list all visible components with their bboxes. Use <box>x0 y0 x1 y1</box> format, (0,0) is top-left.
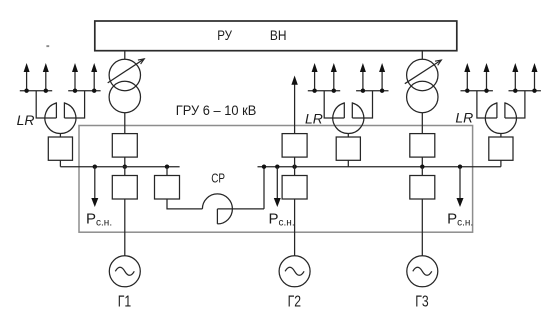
feeder arrow at x=362.9 <box>360 63 366 93</box>
GRU switchgear outline box <box>79 126 473 233</box>
wire: G1 breaker to generator G1 <box>124 199 126 256</box>
feeder arrow at x=534.5 <box>532 63 538 93</box>
svg-text:Г2: Г2 <box>288 293 301 310</box>
feeder arrow at x=486.5 <box>484 63 490 93</box>
svg-text:Рс.н.: Рс.н. <box>269 211 295 229</box>
svg-text:LR: LR <box>305 111 323 127</box>
wire: LR3 centre tap to breaker <box>500 134 502 138</box>
split reactor LR3 feeder group A bus <box>461 90 493 92</box>
feeder arrow at x=45.8 <box>43 63 49 93</box>
svg-text:Г1: Г1 <box>118 293 131 310</box>
right section bus 6-10 kV <box>258 166 501 168</box>
svg-text:ГРУ 6 – 10 кВ: ГРУ 6 – 10 кВ <box>176 102 256 118</box>
split reactor LR3 body <box>485 102 516 133</box>
svg-text:Рс.н.: Рс.н. <box>447 211 473 229</box>
breaker box LR1 <box>48 137 72 160</box>
junction dot: right bus / Psn right <box>458 165 462 169</box>
stray mark (artifact in source drawing) <box>46 45 49 47</box>
auxiliary load arrow Рс.н. middle <box>274 167 281 207</box>
svg-text:Рс.н.: Рс.н. <box>86 211 112 229</box>
wire: G3 breaker to generator G3 <box>421 199 423 256</box>
split reactor LR1 body <box>45 102 76 133</box>
transformer T2 (two-winding, on-load tap changer) <box>405 59 442 112</box>
split reactor LR1 feeder group A bus <box>20 90 52 92</box>
wire: T2 breaker to bus <box>421 157 423 167</box>
feeder arrow at x=314.6 <box>312 63 318 93</box>
svg-text:ВН: ВН <box>270 27 287 43</box>
auxiliary load arrow Рс.н. right <box>457 167 464 207</box>
breaker box T2-bus <box>410 134 435 158</box>
split reactor LR3 feeder group B bus <box>509 90 541 92</box>
wire: T2 HV lead <box>421 51 423 60</box>
generator G2 <box>279 256 310 287</box>
svg-text:СР: СР <box>211 171 225 186</box>
wire: feeder breaker to bus <box>294 157 296 167</box>
breaker box T1-bus <box>112 134 137 158</box>
wire: T1 HV lead <box>124 51 126 60</box>
auxiliary load arrow Рс.н. left <box>91 167 98 207</box>
wire: bus to G1 breaker <box>124 167 126 176</box>
split reactor LR2 feeder group A bus <box>308 90 340 92</box>
wire: group B drop to LR1 right terminal <box>64 91 84 118</box>
wire: CP breaker down and right to reactor <box>167 199 202 209</box>
junction dot: right bus / T2 / G3 <box>420 165 424 169</box>
wire: group A drop to LR3 left terminal <box>477 91 497 118</box>
split reactor LR2 feeder group B bus <box>356 90 388 92</box>
wire: T1 breaker to left bus <box>124 157 126 167</box>
wire: LR1 breaker to section bus <box>59 160 61 166</box>
svg-text:LR: LR <box>17 112 35 128</box>
wire: bus to G2 breaker <box>294 167 296 176</box>
feeder arrow at x=515.3 <box>512 63 518 93</box>
outgoing line arrow (G2 feeder up) <box>291 76 297 134</box>
wire: LR2 centre tap to breaker <box>347 134 349 138</box>
generator G3 <box>407 256 438 287</box>
junction dot: right bus / Psn middle <box>275 165 279 169</box>
breaker box LR2 <box>336 137 360 160</box>
left section bus 6-10 kV <box>60 166 179 168</box>
feeder arrow at x=333.8 <box>331 63 337 93</box>
wire: G2 breaker to generator G2 <box>294 199 296 256</box>
breaker box CP (section) <box>155 176 180 200</box>
breaker box G1 <box>112 176 137 200</box>
feeder arrow at x=26.6 <box>24 63 30 93</box>
breaker box G3 <box>410 176 435 200</box>
transformer T1 (two-winding, on-load tap changer) <box>108 59 145 113</box>
breaker box G2 <box>282 176 307 200</box>
junction dot: right bus / CP <box>262 165 266 169</box>
junction dot: left bus / section reactor branch <box>165 165 169 169</box>
wire: T2 LV lead <box>421 113 423 134</box>
wire: LR3 breaker to section bus <box>500 160 502 166</box>
junction dot: left bus / T1 / G1 <box>123 165 127 169</box>
svg-text:Г3: Г3 <box>415 293 428 310</box>
feeder arrow at x=94.2 <box>91 63 97 93</box>
feeder arrow at x=467.3 <box>464 63 470 93</box>
wire: reactor up to right bus <box>263 167 265 209</box>
wire: LR2 breaker to section bus <box>347 160 349 166</box>
wire: LR1 centre tap to breaker <box>59 134 61 138</box>
wire: group A drop to LR1 left terminal <box>36 91 56 118</box>
breaker box LR3 <box>489 137 513 160</box>
HV switchgear busbar box РУ ВН <box>95 21 457 51</box>
junction dot: right bus / G2 <box>292 165 296 169</box>
breaker box G2 feeder <box>282 134 307 158</box>
wire: T1 LV lead <box>124 113 126 134</box>
split reactor LR1 feeder group B bus <box>68 90 100 92</box>
wire: bus to G3 breaker <box>421 167 423 176</box>
junction dot: left bus / Psn tap <box>93 165 97 169</box>
split reactor LR2 body <box>333 102 364 133</box>
svg-text:LR: LR <box>455 110 473 126</box>
svg-text:РУ: РУ <box>217 27 232 43</box>
wire: group A drop to LR2 left terminal <box>324 91 344 118</box>
feeder arrow at x=75.0 <box>72 63 78 93</box>
section reactor СР <box>202 194 264 224</box>
generator G1 <box>109 256 140 287</box>
wire: group B drop to LR3 right terminal <box>505 91 525 118</box>
feeder arrow at x=382.1 <box>379 63 385 93</box>
wire: bus to CP breaker <box>166 167 168 176</box>
wire: group B drop to LR2 right terminal <box>352 91 372 118</box>
